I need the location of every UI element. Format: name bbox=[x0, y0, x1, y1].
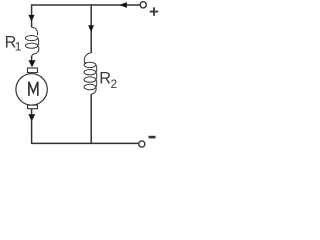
motor top brush rect bbox=[28, 68, 38, 73]
resistor R1 coil bbox=[25, 27, 38, 56]
resistor R2 coil bbox=[84, 53, 97, 94]
arrowhead down upper left bbox=[28, 15, 34, 22]
arrowhead down above motor bbox=[28, 60, 35, 67]
wire below motor bbox=[31, 109, 33, 144]
terminal - circle bbox=[139, 141, 145, 147]
wire middle branch upper bbox=[90, 4, 92, 53]
wire top rail bbox=[31, 4, 140, 6]
wire R1 to motor bbox=[31, 56, 33, 63]
label M bbox=[29, 82, 38, 96]
arrowhead down below motor bbox=[28, 114, 35, 121]
label - bbox=[149, 136, 156, 139]
terminal + circle bbox=[140, 2, 146, 8]
label + bbox=[150, 7, 158, 15]
svg-text:R: R bbox=[99, 69, 111, 87]
svg-text:1: 1 bbox=[15, 39, 22, 53]
arrowhead on top rail pointing left bbox=[119, 2, 127, 8]
wire middle branch lower bbox=[90, 94, 92, 143]
motor M circle bbox=[16, 74, 47, 105]
wire left branch upper bbox=[31, 4, 33, 27]
svg-text:2: 2 bbox=[111, 77, 118, 91]
wire bottom rail bbox=[31, 142, 139, 144]
motor bottom brush rect bbox=[28, 105, 38, 109]
arrowhead down middle branch bbox=[88, 25, 94, 32]
